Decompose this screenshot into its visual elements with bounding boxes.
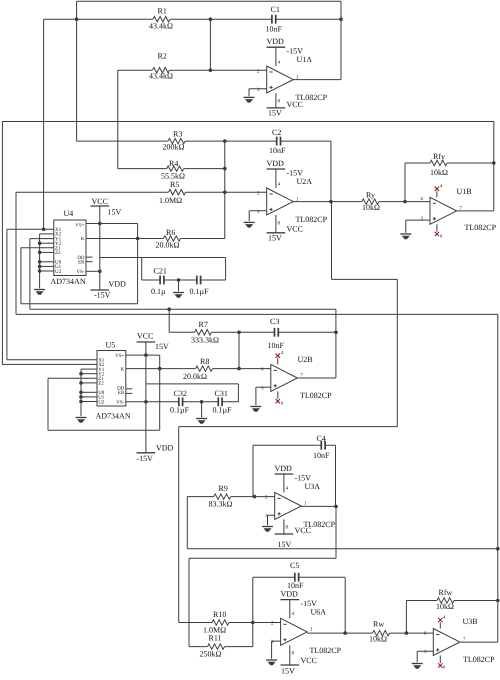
svg-text:U2: U2: [98, 399, 105, 405]
svg-text:U3A: U3A: [305, 482, 321, 491]
svg-text:VDD: VDD: [267, 37, 285, 46]
svg-text:R5: R5: [170, 180, 179, 189]
svg-text:K: K: [81, 236, 85, 242]
svg-text:VS+: VS+: [115, 353, 124, 359]
svg-text:VS-: VS-: [76, 269, 84, 275]
svg-text:10nF: 10nF: [266, 25, 283, 34]
svg-text:10kΩ: 10kΩ: [369, 635, 387, 644]
svg-text:R9: R9: [219, 484, 228, 493]
svg-text:0.1µF: 0.1µF: [213, 405, 233, 414]
svg-text:250kΩ: 250kΩ: [200, 650, 222, 659]
svg-text:Rfw: Rfw: [439, 588, 453, 597]
svg-text:U3B: U3B: [463, 617, 478, 626]
svg-text:VDD: VDD: [156, 444, 174, 453]
svg-text:VDD: VDD: [109, 280, 127, 289]
svg-text:Z2: Z2: [55, 250, 61, 256]
svg-text:333.3kΩ: 333.3kΩ: [191, 335, 219, 344]
svg-text:K: K: [121, 367, 125, 373]
svg-text:-15V: -15V: [94, 291, 111, 300]
svg-text:VDD: VDD: [275, 464, 293, 473]
svg-text:U6A: U6A: [311, 608, 327, 617]
svg-text:10kΩ: 10kΩ: [430, 168, 448, 177]
svg-text:ER: ER: [118, 390, 125, 396]
svg-text:R11: R11: [209, 634, 222, 643]
svg-text:VDD: VDD: [267, 159, 285, 168]
svg-text:U5: U5: [106, 340, 116, 349]
svg-text:U4: U4: [64, 209, 74, 218]
svg-text:15V: 15V: [155, 342, 169, 351]
svg-text:Ry: Ry: [366, 191, 375, 200]
svg-text:43.4kΩ: 43.4kΩ: [149, 71, 173, 80]
svg-text:TL082CP: TL082CP: [304, 520, 336, 529]
svg-text:15V: 15V: [278, 540, 292, 549]
svg-text:0.1µF: 0.1µF: [190, 287, 210, 296]
svg-text:R10: R10: [213, 610, 226, 619]
svg-text:VDD: VDD: [281, 590, 299, 599]
svg-text:Z2: Z2: [98, 381, 104, 387]
svg-text:TL082CP: TL082CP: [463, 655, 495, 664]
svg-text:Rw: Rw: [373, 620, 384, 629]
svg-text:15V: 15V: [281, 667, 295, 676]
svg-text:C1: C1: [271, 5, 280, 14]
svg-text:R7: R7: [199, 320, 208, 329]
svg-text:C32: C32: [174, 389, 187, 398]
svg-text:C4: C4: [317, 434, 326, 443]
svg-text:10kΩ: 10kΩ: [362, 203, 380, 212]
svg-text:15V: 15V: [108, 208, 122, 217]
svg-text:0.1µ: 0.1µ: [151, 287, 166, 296]
svg-text:VCC: VCC: [92, 197, 108, 206]
svg-text:Rfy: Rfy: [433, 152, 445, 161]
svg-text:VS-: VS-: [116, 399, 124, 405]
svg-text:AD734AN: AD734AN: [96, 412, 131, 421]
svg-text:ER: ER: [78, 259, 85, 265]
svg-text:10nF: 10nF: [313, 451, 330, 460]
svg-text:10nF: 10nF: [269, 146, 286, 155]
svg-text:TL082CP: TL082CP: [300, 391, 332, 400]
svg-text:10nF: 10nF: [268, 341, 285, 350]
svg-text:AD734AN: AD734AN: [51, 277, 86, 286]
svg-text:-15V: -15V: [137, 454, 154, 463]
svg-text:U2: U2: [55, 269, 62, 275]
svg-text:20.0kΩ: 20.0kΩ: [183, 372, 207, 381]
svg-text:15V: 15V: [268, 109, 282, 118]
svg-text:U1B: U1B: [457, 187, 472, 196]
svg-text:R1: R1: [158, 7, 167, 16]
svg-text:TL082CP: TL082CP: [465, 223, 497, 232]
svg-text:10nF: 10nF: [287, 581, 304, 590]
svg-text:TL082CP: TL082CP: [310, 646, 342, 655]
svg-text:15V: 15V: [268, 234, 282, 243]
svg-text:C2: C2: [272, 128, 281, 137]
svg-text:VCC: VCC: [137, 332, 153, 341]
svg-text:R6: R6: [166, 228, 175, 237]
svg-text:U2B: U2B: [298, 355, 313, 364]
svg-text:83.3kΩ: 83.3kΩ: [209, 499, 233, 508]
svg-text:R3: R3: [173, 129, 182, 138]
svg-text:U2A: U2A: [297, 177, 313, 186]
svg-text:10kΩ: 10kΩ: [436, 602, 454, 611]
svg-text:R4: R4: [169, 159, 178, 168]
svg-text:1.0MΩ: 1.0MΩ: [159, 196, 182, 205]
svg-text:20.0kΩ: 20.0kΩ: [156, 240, 180, 249]
svg-text:VS+: VS+: [75, 222, 84, 228]
svg-text:C3: C3: [270, 317, 279, 326]
svg-text:R2: R2: [158, 52, 167, 61]
svg-text:R8: R8: [200, 357, 209, 366]
svg-text:VCC: VCC: [287, 225, 303, 234]
svg-text:VCC: VCC: [301, 656, 317, 665]
svg-text:C31: C31: [215, 389, 228, 398]
svg-text:43.4kΩ: 43.4kΩ: [149, 21, 173, 30]
svg-text:TL082CP: TL082CP: [296, 93, 328, 102]
svg-text:200kΩ: 200kΩ: [163, 143, 185, 152]
svg-text:0.1µF: 0.1µF: [170, 405, 190, 414]
svg-text:TL082CP: TL082CP: [296, 215, 328, 224]
svg-text:C21: C21: [154, 267, 167, 276]
svg-text:C5: C5: [290, 561, 299, 570]
svg-text:U1A: U1A: [297, 55, 313, 64]
